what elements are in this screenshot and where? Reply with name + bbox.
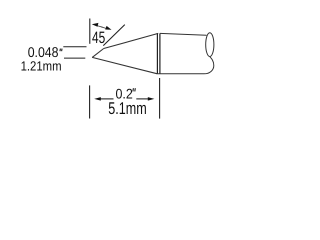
tip outline: cone bottom edge xyxy=(92,57,157,73)
break ellipse at cartridge end xyxy=(206,33,214,57)
vertical extension line for angle xyxy=(89,19,91,44)
joint double line 1 xyxy=(156,33,158,73)
angle arrow right xyxy=(101,26,112,30)
svg-text:5.1mm: 5.1mm xyxy=(108,99,146,118)
bottom dim line left segment with arrow xyxy=(94,97,113,101)
tip outline: cone top edge xyxy=(104,33,159,48)
leader line upper (0.048 top) xyxy=(63,46,86,48)
cylinder bottom edge with rounded break corner xyxy=(157,57,213,74)
leader line lower (0.048 bottom) xyxy=(64,57,85,59)
bottom dim line right segment with arrow xyxy=(136,97,154,101)
tip outline: bevel edge xyxy=(92,49,104,58)
45-degree slash dimension line xyxy=(103,25,125,46)
bottom dim: left extension line xyxy=(89,85,91,118)
inch double-prime mark for 0.048 xyxy=(60,49,62,52)
svg-text:1.21mm: 1.21mm xyxy=(21,59,62,74)
cylinder top edge xyxy=(160,33,207,35)
svg-text:45: 45 xyxy=(92,29,105,47)
bottom dim: right extension line xyxy=(159,78,161,119)
inch double-prime mark for 0.2 xyxy=(133,88,135,91)
angle arrow left xyxy=(92,23,103,27)
joint double line 2 xyxy=(159,33,161,73)
